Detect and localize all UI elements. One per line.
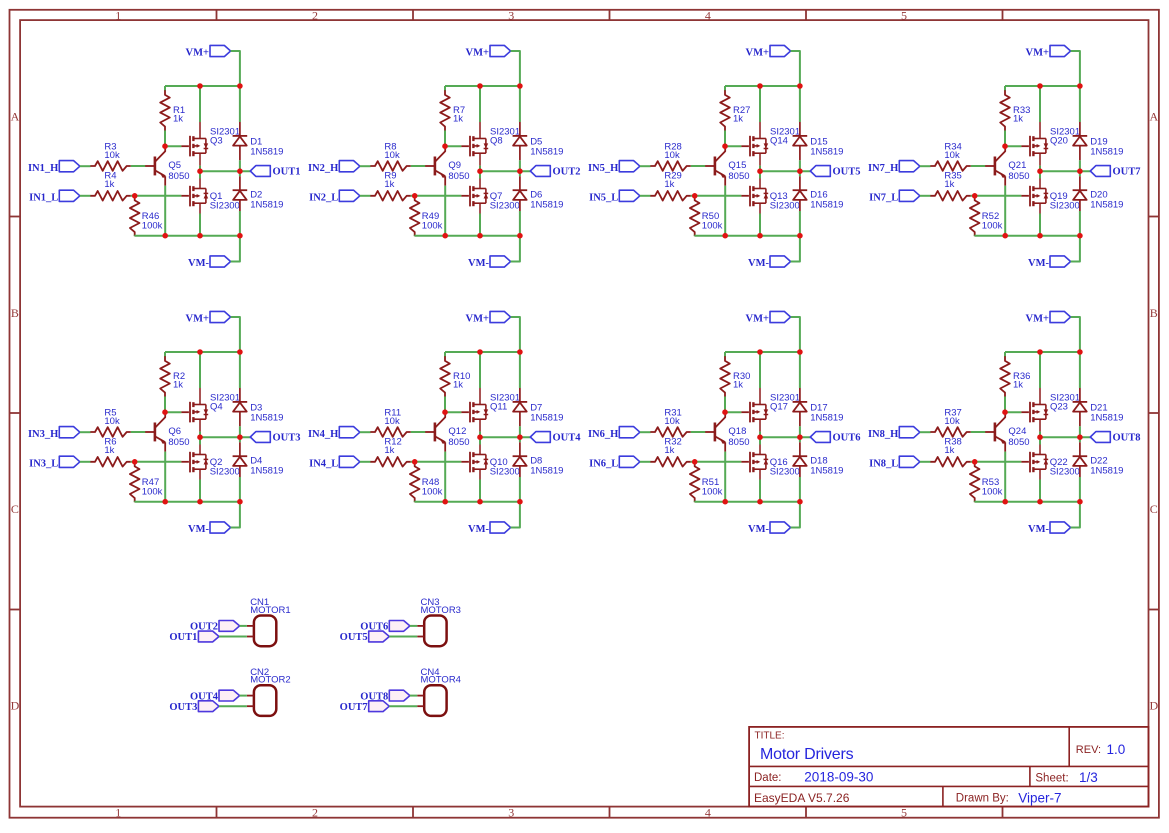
svg-text:SI2300: SI2300 (1050, 466, 1080, 477)
resistor R31 (650, 408, 690, 437)
svg-text:4: 4 (705, 805, 711, 819)
transistor Q13 (NMOS SI2300) (741, 186, 799, 212)
power flag VM- (1028, 522, 1071, 535)
wire output rail (200, 436, 250, 438)
power flag VM- (188, 256, 231, 269)
svg-text:OUT6: OUT6 (833, 432, 861, 443)
wire R4 to gate Q1 (131, 195, 182, 197)
power flag VM+ (1026, 311, 1071, 324)
svg-text:1k: 1k (104, 445, 114, 456)
resistor R2 (160, 356, 185, 396)
svg-text:VM-: VM- (188, 258, 209, 269)
resistor R49 (410, 196, 443, 236)
wire Q17 drain to out rail (759, 432, 761, 438)
title block frame (749, 727, 1148, 807)
resistor R34 (930, 142, 970, 171)
svg-text:TITLE:: TITLE: (755, 730, 785, 741)
wire D15 to out rail (799, 160, 801, 171)
svg-text:VM-: VM- (468, 524, 489, 535)
wire R35 to gate Q19 (971, 195, 1022, 197)
wire OUT7 to pin 2 (389, 705, 417, 707)
svg-text:VM-: VM- (748, 258, 769, 269)
junction out rail right (797, 434, 803, 440)
junction Q2 source-bottom rail (197, 499, 203, 505)
power flag VM- (748, 256, 791, 269)
svg-text:A: A (11, 109, 20, 123)
junction top rail-D1 (237, 83, 243, 89)
svg-text:1k: 1k (384, 179, 394, 190)
svg-text:SI2300: SI2300 (210, 466, 240, 477)
svg-text:B: B (11, 306, 19, 320)
wire Q1 source to bottom rail (199, 214, 201, 236)
svg-text:Drawn By:: Drawn By: (956, 793, 1009, 805)
svg-text:1N5819: 1N5819 (810, 199, 843, 210)
wire R51 to bottom rail (694, 500, 696, 503)
svg-text:Motor Drivers: Motor Drivers (760, 746, 854, 763)
pin Q17 drain (759, 419, 761, 431)
wire out rail to Q2 (199, 437, 201, 444)
net flag IN1_L (29, 190, 80, 203)
resistor R28 (650, 142, 690, 171)
svg-text:OUT4: OUT4 (553, 432, 582, 443)
wire top rail to D7 (519, 352, 521, 388)
transistor Q1 (NMOS SI2300) (181, 186, 239, 212)
svg-text:Q12: Q12 (448, 426, 466, 437)
svg-text:100k: 100k (422, 487, 443, 498)
svg-text:IN6_L: IN6_L (589, 458, 618, 469)
svg-text:Q20: Q20 (1050, 135, 1068, 146)
junction out rail left (1037, 434, 1043, 440)
power flag VM+ (1026, 45, 1071, 58)
wire Q8 drain to out rail (479, 166, 481, 172)
svg-text:MOTOR1: MOTOR1 (250, 605, 290, 616)
wire R12 to gate Q10 (411, 461, 462, 463)
wire top rail to D5 (519, 86, 521, 122)
junction node R52 (972, 193, 978, 199)
svg-text:100k: 100k (702, 487, 723, 498)
net flag IN5_H (588, 161, 640, 174)
svg-text:VM+: VM+ (466, 314, 489, 325)
ruler tick left (10, 216, 21, 218)
pin Q16 drain (759, 445, 761, 455)
wire top rail to R27 (724, 86, 726, 91)
wire D7 to out rail (519, 426, 521, 437)
junction Q10 source-bottom rail (477, 499, 483, 505)
svg-text:1k: 1k (944, 445, 954, 456)
svg-text:IN5_L: IN5_L (589, 192, 618, 203)
junction out rail left (477, 168, 483, 174)
wire R9 to gate Q7 (411, 195, 462, 197)
svg-text:OUT8: OUT8 (1113, 432, 1141, 443)
wire top rail to Q8 (479, 86, 481, 122)
svg-text:10k: 10k (384, 150, 400, 161)
svg-text:SI2300: SI2300 (490, 200, 520, 211)
svg-text:1k: 1k (453, 114, 463, 125)
diode D8 (1N5819) (513, 442, 564, 477)
pin Q7 source (479, 203, 481, 213)
pin 2 CN2 (247, 705, 254, 707)
diode D6 (1N5819) (513, 176, 564, 211)
pin Q13 source (759, 203, 761, 213)
junction top rail-D21 (1077, 349, 1083, 355)
wire out rail to D2 (239, 171, 241, 176)
transistor Q6 (NPN 8050) (145, 412, 190, 451)
wire top rail (1005, 85, 1080, 87)
svg-text:Sheet:: Sheet: (1035, 772, 1068, 784)
wire out rail to D4 (239, 437, 241, 442)
diode D4 (1N5819) (233, 442, 284, 477)
junction node Q24 collector (1002, 409, 1008, 415)
diode D21 (1N5819) (1073, 388, 1124, 426)
transistor Q5 (NPN 8050) (145, 146, 190, 185)
net flag IN2_H (308, 161, 360, 174)
wire R11 to Q12 base (411, 431, 425, 433)
wire gate SI2301 (725, 145, 741, 147)
svg-text:VM-: VM- (468, 258, 489, 269)
wire Q16 source to bottom rail (759, 480, 761, 502)
svg-text:10k: 10k (944, 150, 960, 161)
junction top rail-D17 (797, 349, 803, 355)
wire R29 to gate Q13 (691, 195, 742, 197)
pin Q11 source (479, 388, 481, 405)
svg-text:Q11: Q11 (490, 401, 507, 412)
pin Q22 drain (1039, 445, 1041, 455)
wire bottom rail to VM- (511, 236, 520, 262)
svg-text:Q8: Q8 (490, 135, 503, 146)
wire Q5 emitter to bottom rail (164, 186, 166, 236)
net flag OUT5 (810, 166, 860, 178)
junction node Q5 collector (162, 143, 168, 149)
transistor Q2 (NMOS SI2300) (181, 452, 239, 478)
wire top rail to R7 (444, 86, 446, 91)
wire R27 to node (724, 131, 726, 147)
junction emitter-bottom rail (1002, 233, 1008, 239)
junction emitter-bottom rail (1002, 499, 1008, 505)
net flag OUT6 (360, 621, 410, 633)
wire top rail to Q20 (1039, 86, 1041, 122)
wire out rail to D16 (799, 171, 801, 176)
wire bottom rail (415, 235, 520, 237)
svg-text:MOTOR3: MOTOR3 (421, 605, 461, 616)
svg-text:A: A (1149, 109, 1158, 123)
ruler tick bottom (805, 807, 807, 818)
wire bottom rail (135, 501, 240, 503)
pin Q10 source (479, 469, 481, 479)
wire D5 to out rail (519, 160, 521, 171)
junction out rail right (1077, 434, 1083, 440)
net flag OUT4 (190, 690, 240, 702)
svg-text:8050: 8050 (1008, 437, 1029, 448)
ruler tick bottom (412, 807, 414, 818)
title block Drawn By (956, 791, 1062, 806)
pin 2 CN3 (417, 636, 424, 638)
pin Q8 source (479, 122, 481, 139)
wire R30 to node (724, 397, 726, 413)
diode D3 (1N5819) (233, 388, 284, 426)
junction Q13 source-bottom rail (757, 233, 763, 239)
wire out rail to D6 (519, 171, 521, 176)
svg-text:Q5: Q5 (168, 160, 181, 171)
junction D22-bottom rail (1077, 499, 1083, 505)
wire D4 to bottom rail (239, 477, 241, 502)
junction Q19 source-bottom rail (1037, 233, 1043, 239)
junction out rail left (477, 434, 483, 440)
wire D1 to out rail (239, 160, 241, 171)
net flag OUT1 (169, 631, 219, 643)
pin 2 CN1 (247, 636, 254, 638)
junction Q1 source-bottom rail (197, 233, 203, 239)
svg-text:Q9: Q9 (448, 160, 461, 171)
svg-text:IN3_L: IN3_L (29, 458, 58, 469)
wire top rail to D17 (799, 352, 801, 388)
junction node Q18 collector (722, 409, 728, 415)
wire R49 to bottom rail (414, 234, 416, 237)
junction out rail right (517, 168, 523, 174)
wire top rail to R30 (724, 352, 726, 357)
wire out rail to D20 (1079, 171, 1081, 176)
svg-text:8050: 8050 (448, 437, 469, 448)
wire top rail to Q14 (759, 86, 761, 122)
wire out rail to Q19 (1039, 171, 1041, 178)
wire Q7 source to bottom rail (479, 214, 481, 236)
svg-text:100k: 100k (142, 221, 163, 232)
junction top rail-Q14 source (757, 83, 763, 89)
resistor R12 (370, 437, 410, 467)
wire D16 to bottom rail (799, 211, 801, 236)
wire gate SI2301 (445, 145, 461, 147)
junction node R46 (132, 193, 138, 199)
svg-text:100k: 100k (702, 221, 723, 232)
wire bottom rail (415, 501, 520, 503)
junction top rail-Q4 source (197, 349, 203, 355)
wire IN2_L to R9 (360, 195, 371, 197)
wire D17 to out rail (799, 426, 801, 437)
ruler tick top (805, 10, 807, 20)
pin Q20 drain (1039, 153, 1041, 165)
wire output rail (480, 436, 530, 438)
wire bottom rail to VM- (1071, 236, 1080, 262)
junction out rail left (197, 168, 203, 174)
wire top rail (725, 85, 800, 87)
svg-text:Q14: Q14 (770, 135, 788, 146)
svg-text:1k: 1k (733, 114, 743, 125)
junction emitter-bottom rail (722, 233, 728, 239)
transistor Q14 (PMOS SI2301) (741, 126, 800, 156)
net flag IN7_H (868, 161, 920, 174)
junction D18-bottom rail (797, 499, 803, 505)
wire top rail to R10 (444, 352, 446, 357)
pin Q19 drain (1039, 179, 1041, 189)
junction D16-bottom rail (797, 233, 803, 239)
wire R28 to Q15 base (691, 165, 705, 167)
wire gate SI2301 (1005, 145, 1021, 147)
svg-text:IN4_L: IN4_L (309, 458, 338, 469)
wire output rail (200, 170, 250, 172)
svg-text:8050: 8050 (168, 437, 189, 448)
junction top rail-D5 (517, 83, 523, 89)
wire IN4_H to R11 (360, 431, 371, 433)
junction Q22 source-bottom rail (1037, 499, 1043, 505)
wire R7 to node (444, 131, 446, 147)
transistor Q9 (NPN 8050) (425, 146, 470, 185)
svg-text:1N5819: 1N5819 (1090, 199, 1123, 210)
svg-text:IN4_H: IN4_H (308, 429, 338, 440)
svg-text:1k: 1k (1013, 114, 1023, 125)
wire R37 to Q24 base (971, 431, 985, 433)
svg-text:8050: 8050 (728, 171, 749, 182)
pin Q4 drain (199, 419, 201, 431)
junction top rail-Q11 source (477, 349, 483, 355)
pin 1 CN3 (417, 625, 424, 627)
wire R3 to Q5 base (131, 165, 145, 167)
diode D17 (1N5819) (793, 388, 844, 426)
wire OUT8 to pin 1 (410, 695, 417, 697)
junction node Q15 collector (722, 143, 728, 149)
ruler tick bottom (609, 807, 611, 818)
svg-text:C: C (11, 502, 19, 516)
power flag VM+ (466, 311, 511, 324)
svg-text:OUT5: OUT5 (340, 632, 368, 643)
wire top rail (725, 351, 800, 353)
wire top rail to R2 (164, 352, 166, 357)
wire top rail to R33 (1004, 86, 1006, 91)
svg-text:IN6_H: IN6_H (588, 429, 618, 440)
pin Q23 drain (1039, 419, 1041, 431)
wire Q9 emitter to bottom rail (444, 186, 446, 236)
svg-text:4: 4 (705, 8, 711, 22)
pin Q23 source (1039, 388, 1041, 405)
junction top rail-Q17 source (757, 349, 763, 355)
net flag OUT8 (1090, 432, 1140, 444)
pin Q3 source (199, 122, 201, 139)
junction node R50 (692, 193, 698, 199)
wire R48 to bottom rail (414, 500, 416, 503)
diode D16 (1N5819) (793, 176, 844, 211)
svg-text:1N5819: 1N5819 (530, 465, 563, 476)
wire VM+ to top rail (511, 317, 520, 352)
wire gate SI2301 (165, 411, 181, 413)
pin Q13 drain (759, 179, 761, 189)
ruler tick right (1149, 412, 1159, 414)
svg-text:1N5819: 1N5819 (250, 465, 283, 476)
wire bottom rail to VM- (1071, 502, 1080, 528)
junction node R49 (412, 193, 418, 199)
diode D2 (1N5819) (233, 176, 284, 211)
pin Q10 drain (479, 445, 481, 455)
wire top rail to Q23 (1039, 352, 1041, 388)
svg-text:OUT3: OUT3 (169, 702, 197, 713)
svg-text:1k: 1k (664, 179, 674, 190)
wire IN7_L to R35 (920, 195, 931, 197)
wire Q13 source to bottom rail (759, 214, 761, 236)
wire R50 to bottom rail (694, 234, 696, 237)
junction top rail-D15 (797, 83, 803, 89)
wire Q12 emitter to bottom rail (444, 452, 446, 502)
transistor Q15 (NPN 8050) (705, 146, 750, 185)
svg-text:1k: 1k (173, 114, 183, 125)
svg-text:10k: 10k (384, 416, 400, 427)
net flag IN2_L (309, 190, 360, 203)
svg-text:REV:: REV: (1076, 744, 1101, 756)
junction top rail-D7 (517, 349, 523, 355)
wire D6 to bottom rail (519, 211, 521, 236)
resistor R51 (690, 462, 723, 502)
svg-text:1.0: 1.0 (1107, 742, 1126, 757)
wire out rail to D18 (799, 437, 801, 442)
wire out rail to Q7 (479, 171, 481, 178)
svg-text:1k: 1k (453, 380, 463, 391)
wire top rail (445, 351, 520, 353)
net flag IN3_H (28, 427, 80, 440)
resistor R8 (370, 142, 410, 171)
svg-text:OUT7: OUT7 (340, 702, 368, 713)
resistor R30 (720, 356, 750, 396)
power flag VM+ (746, 311, 791, 324)
junction node Q12 collector (442, 409, 448, 415)
junction out rail right (797, 168, 803, 174)
junction node Q21 collector (1002, 143, 1008, 149)
svg-text:VM-: VM- (1028, 258, 1049, 269)
junction D20-bottom rail (1077, 233, 1083, 239)
wire R2 to node (164, 397, 166, 413)
wire Q24 emitter to bottom rail (1004, 452, 1006, 502)
svg-text:EasyEDA V5.7.26: EasyEDA V5.7.26 (754, 791, 850, 805)
ruler tick left (10, 412, 21, 414)
diode D5 (1N5819) (513, 122, 564, 160)
svg-text:OUT2: OUT2 (553, 166, 581, 177)
svg-text:Q18: Q18 (728, 426, 746, 437)
power flag VM- (468, 522, 511, 535)
svg-text:VM-: VM- (748, 524, 769, 535)
ruler tick left (10, 609, 21, 611)
svg-text:1N5819: 1N5819 (530, 199, 563, 210)
wire OUT4 to pin 1 (240, 695, 247, 697)
junction node Q9 collector (442, 143, 448, 149)
wire top rail (165, 85, 240, 87)
wire output rail (760, 170, 810, 172)
wire OUT5 to pin 2 (389, 636, 417, 638)
junction out rail right (237, 434, 243, 440)
svg-text:IN1_L: IN1_L (29, 192, 58, 203)
wire bottom rail to VM- (791, 236, 800, 262)
svg-text:VM+: VM+ (1026, 48, 1049, 59)
wire top rail (445, 85, 520, 87)
svg-text:OUT1: OUT1 (273, 166, 301, 177)
svg-text:VM+: VM+ (186, 314, 209, 325)
junction top rail-Q23 source (1037, 349, 1043, 355)
net flag IN5_L (589, 190, 640, 203)
ruler tick right (1149, 216, 1159, 218)
wire D2 to bottom rail (239, 211, 241, 236)
pin Q1 source (199, 203, 201, 213)
wire out rail to Q16 (759, 437, 761, 444)
resistor R3 (90, 142, 130, 171)
wire OUT3 to pin 2 (219, 705, 247, 707)
svg-text:SI2300: SI2300 (770, 200, 800, 211)
svg-text:8050: 8050 (728, 437, 749, 448)
diode D22 (1N5819) (1073, 442, 1124, 477)
ruler tick top (1002, 10, 1004, 20)
svg-text:SI2300: SI2300 (1050, 200, 1080, 211)
svg-text:1N5819: 1N5819 (250, 146, 283, 157)
connector CN3 (MOTOR3) (421, 597, 461, 646)
wire R38 to gate Q22 (971, 461, 1022, 463)
wire IN6_H to R31 (640, 431, 651, 433)
wire output rail (1040, 436, 1090, 438)
power flag VM- (1028, 256, 1071, 269)
junction node R47 (132, 459, 138, 465)
svg-text:1k: 1k (944, 179, 954, 190)
